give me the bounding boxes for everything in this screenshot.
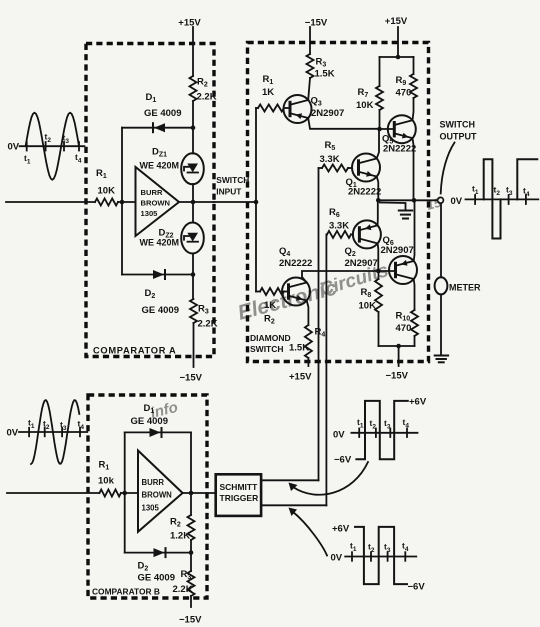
svg-text:INPUT: INPUT	[216, 187, 242, 197]
svg-text:470: 470	[396, 88, 412, 99]
svg-text:GE 4009: GE 4009	[138, 573, 176, 584]
svg-text:SCHMITT: SCHMITT	[220, 482, 259, 492]
svg-text:−6V: −6V	[334, 455, 352, 466]
svg-text:+6V: +6V	[332, 524, 350, 535]
svg-text:3.3K: 3.3K	[329, 221, 349, 232]
svg-text:DIAMOND: DIAMOND	[250, 333, 291, 343]
svg-text:10K: 10K	[356, 100, 374, 111]
svg-text:BURR: BURR	[141, 188, 163, 197]
svg-text:1.5K: 1.5K	[289, 343, 309, 354]
svg-text:0V: 0V	[331, 553, 343, 564]
svg-text:10K: 10K	[98, 186, 116, 197]
svg-text:0V: 0V	[7, 428, 19, 439]
svg-text:BURR: BURR	[142, 478, 165, 487]
svg-text:BROWN: BROWN	[142, 491, 173, 500]
svg-text:SWITCH: SWITCH	[216, 175, 249, 185]
svg-text:BROWN: BROWN	[141, 199, 171, 208]
svg-text:+6V: +6V	[409, 397, 427, 408]
svg-text:−15V: −15V	[179, 615, 202, 626]
svg-text:2.2K: 2.2K	[198, 319, 218, 330]
svg-text:10K: 10K	[359, 301, 377, 312]
svg-text:2.2K: 2.2K	[173, 584, 193, 595]
svg-text:0V: 0V	[333, 430, 345, 441]
svg-text:SWITCH: SWITCH	[250, 344, 284, 354]
svg-text:2N2222: 2N2222	[383, 144, 416, 155]
svg-text:1305: 1305	[142, 504, 160, 513]
svg-text:2N2907: 2N2907	[311, 108, 344, 119]
svg-text:TRIGGER: TRIGGER	[220, 493, 259, 503]
svg-text:−15V: −15V	[386, 371, 409, 382]
svg-text:WE 420M: WE 420M	[140, 238, 180, 248]
svg-text:WE 420M: WE 420M	[140, 161, 180, 171]
svg-text:+15V: +15V	[385, 16, 408, 27]
svg-text:10k: 10k	[98, 476, 115, 487]
svg-text:2.2K: 2.2K	[197, 92, 217, 103]
svg-text:1.5K: 1.5K	[315, 69, 335, 80]
svg-text:COMPARATOR A: COMPARATOR A	[93, 346, 176, 356]
svg-text:−15V: −15V	[180, 373, 203, 384]
svg-text:2N2222: 2N2222	[348, 187, 381, 198]
svg-text:METER: METER	[449, 283, 481, 293]
svg-text:3.3K: 3.3K	[320, 154, 340, 165]
svg-text:GE 4009: GE 4009	[142, 305, 180, 316]
svg-text:1K: 1K	[262, 87, 274, 98]
svg-text:470: 470	[396, 323, 412, 334]
svg-text:COMPARATOR B: COMPARATOR B	[92, 587, 160, 597]
svg-text:−15V: −15V	[305, 18, 328, 29]
svg-text:1.2K: 1.2K	[170, 531, 190, 542]
svg-text:0V: 0V	[8, 142, 20, 153]
svg-text:0V: 0V	[451, 196, 463, 207]
svg-text:+15V: +15V	[178, 18, 201, 29]
svg-text:2N2907: 2N2907	[381, 245, 414, 256]
svg-text:OUTPUT: OUTPUT	[440, 132, 478, 142]
svg-text:−6V: −6V	[408, 582, 426, 593]
svg-text:1305: 1305	[141, 209, 159, 218]
svg-text:GE 4009: GE 4009	[144, 108, 182, 119]
svg-text:+15V: +15V	[289, 372, 312, 383]
svg-text:2N2222: 2N2222	[279, 258, 312, 269]
svg-text:SWITCH: SWITCH	[440, 120, 476, 130]
